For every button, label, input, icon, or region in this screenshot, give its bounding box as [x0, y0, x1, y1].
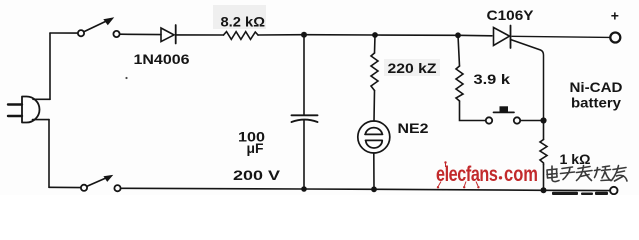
bottom edge cut-off caption smudge	[552, 192, 608, 195]
node D junction (bottom of lamp)	[371, 186, 377, 192]
node A junction	[301, 32, 307, 38]
char you	[612, 166, 628, 182]
char dian	[547, 166, 559, 182]
wire left bus lower vertical	[48, 120, 50, 188]
resistor R4 1k (vertical zigzag)	[540, 140, 547, 165]
capacitor C1 top lead	[303, 35, 305, 115]
+ terminal circle	[610, 33, 620, 43]
resistor R2 220kZ (vertical zigzag)	[371, 53, 378, 91]
resistor R4 1k top lead	[543, 121, 545, 140]
node B junction	[372, 32, 378, 38]
svg-text:C106Y: C106Y	[487, 7, 535, 23]
wire bottom rail node F to - terminal	[544, 189, 610, 191]
scan artifact gray patch behind 220 kZ label	[384, 59, 440, 76]
pushbutton S3	[486, 106, 520, 123]
wire left bus upper vertical	[49, 33, 51, 99]
char shao	[595, 166, 611, 181]
svg-text:1 kΩ: 1 kΩ	[560, 151, 591, 167]
wire bottom rail node D to node F	[374, 189, 544, 190]
scan artifact gray patch behind 8.2 kOhm label	[213, 5, 266, 29]
wire plug bottom lead to left bus	[33, 119, 50, 121]
AC plug P1	[8, 97, 40, 123]
svg-text:μF: μF	[247, 140, 264, 156]
wire bottom rail node G to node D	[304, 188, 374, 190]
wire node C to SCR Q1	[458, 34, 492, 37]
wire pushbutton to node E	[520, 120, 543, 122]
svg-text:200 V: 200 V	[233, 167, 281, 183]
svg-text:+: +	[611, 8, 619, 24]
resistor R1 8.2k (horizontal zigzag)	[224, 32, 259, 40]
wire switch S2 to node under capacitor	[121, 187, 304, 190]
- terminal circle	[610, 187, 617, 194]
char zi	[561, 167, 575, 180]
wire diode to resistor R1	[176, 34, 224, 36]
svg-text:battery: battery	[571, 95, 621, 111]
stray dot	[125, 77, 127, 79]
wire R2 to neon lamp	[373, 91, 376, 122]
watermark Chinese characters (hand-drawn strokes)	[547, 166, 627, 182]
svg-text:1N4006: 1N4006	[134, 51, 190, 67]
node G junction (bottom of capacitor)	[301, 186, 307, 192]
svg-text:8.2 kΩ: 8.2 kΩ	[221, 14, 266, 30]
wire plug top lead to left bus	[33, 98, 50, 100]
char fa	[577, 166, 593, 181]
diode D1 1N4006	[161, 25, 176, 44]
switch S1 (top)	[78, 18, 120, 37]
resistor R3 3.9k (vertical zigzag)	[456, 66, 463, 101]
svg-text:3.9 k: 3.9 k	[474, 71, 511, 87]
node C junction	[455, 32, 461, 38]
watermark elecfans.com	[436, 161, 538, 188]
capacitor C1 bottom lead	[303, 121, 305, 190]
wire node B to node C	[375, 34, 458, 36]
wire top rail: corner to switch S1	[50, 32, 78, 34]
capacitor C1	[292, 115, 318, 122]
wire R3 to pushbutton S3	[460, 101, 486, 121]
svg-text:NE2: NE2	[398, 120, 429, 136]
wire R4 to bottom rail	[543, 165, 545, 191]
wire node A to node B	[304, 34, 375, 36]
svg-text:com: com	[504, 163, 538, 186]
node E junction (gate net)	[540, 117, 546, 123]
wire bottom rail: corner to switch S2	[49, 186, 81, 188]
wire switch S1 to diode D1	[120, 33, 161, 35]
resistor R2 220kZ top lead	[374, 35, 377, 53]
wire lamp to bottom rail	[373, 153, 375, 189]
node F junction (bottom)	[541, 187, 547, 193]
switch S2 (bottom)	[81, 176, 121, 192]
wire SCR cathode to + terminal	[512, 36, 610, 37]
resistor R3 3.9k top lead	[458, 35, 460, 66]
neon lamp NE2	[358, 121, 390, 153]
SCR Q1 C106Y	[494, 26, 544, 121]
svg-text:220 kZ: 220 kZ	[388, 60, 437, 76]
wire resistor R1 to node A	[258, 34, 304, 36]
svg-text:Ni-CAD: Ni-CAD	[570, 79, 623, 95]
